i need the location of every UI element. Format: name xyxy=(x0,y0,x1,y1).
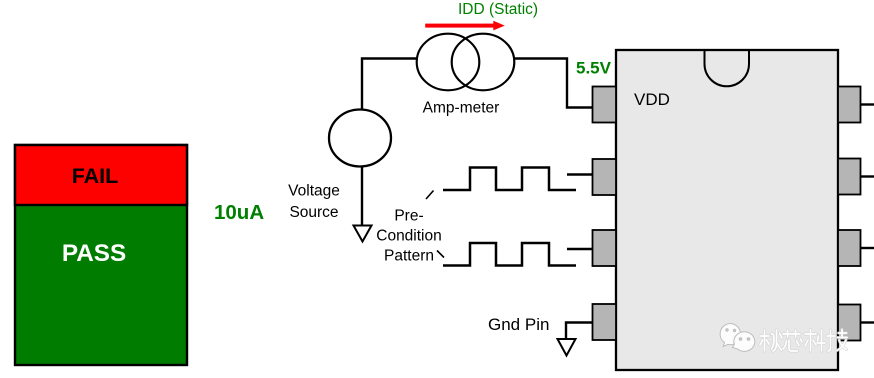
pin 7 (right) xyxy=(838,159,861,195)
svg-text:10uA: 10uA xyxy=(214,201,264,224)
svg-text:IDD (Static): IDD (Static) xyxy=(458,1,538,18)
svg-text:Source: Source xyxy=(289,204,338,221)
svg-text:Gnd Pin: Gnd Pin xyxy=(488,315,549,334)
IC U1 body (DIP-8) xyxy=(616,50,838,370)
svg-text:Voltage: Voltage xyxy=(288,183,340,200)
wire: gnd pin to ground xyxy=(566,323,593,340)
pin 1 (VDD, left) xyxy=(593,87,617,123)
watermark text 桃芯科技 (hand drawn strokes, gray halo + white core) xyxy=(760,330,847,352)
amp-meter A1 (left circle) xyxy=(417,34,480,91)
wire: amp-meter to VDD pin xyxy=(515,59,593,108)
pin 5 (right) xyxy=(838,305,861,341)
leader tick (to bottom pattern) xyxy=(437,251,444,258)
wire: top pattern to pin 2 xyxy=(567,173,593,175)
leader tick (to top pattern) xyxy=(426,191,434,200)
pin 2 (left) xyxy=(593,159,617,195)
svg-text:Pattern: Pattern xyxy=(384,247,434,264)
pin 8 (right) xyxy=(838,87,861,123)
wire: bottom pattern to pin 3 xyxy=(567,248,593,250)
current-flow arrow (red) xyxy=(425,21,505,31)
watermark logo (chat bubbles) xyxy=(720,324,755,352)
pass/fail legend box (red FAIL region) xyxy=(15,145,187,205)
svg-text:PASS: PASS xyxy=(62,240,126,267)
pass/fail legend box (green region) xyxy=(15,145,187,365)
wire stub pin 7 xyxy=(861,175,874,177)
wire stub pin 6 xyxy=(861,247,874,249)
IC notch xyxy=(705,51,750,86)
wire stub pin 5 xyxy=(861,321,874,323)
voltage source V1 xyxy=(329,110,391,167)
pin 4 (Gnd, left) xyxy=(593,304,617,340)
wire: voltage source top to amp-meter xyxy=(362,59,418,110)
pin 3 (left) xyxy=(593,230,617,266)
svg-text:Condition: Condition xyxy=(376,228,442,245)
wire: voltage source bottom to ground xyxy=(361,166,363,226)
waveform: top pre-condition pattern xyxy=(443,168,576,191)
svg-text:Pre-: Pre- xyxy=(394,208,423,225)
ground (voltage source) xyxy=(354,226,372,242)
pin 6 (right) xyxy=(838,230,861,266)
svg-text:Amp-meter: Amp-meter xyxy=(423,100,500,117)
svg-text:FAIL: FAIL xyxy=(72,164,119,188)
waveform: bottom pre-condition pattern xyxy=(443,243,576,266)
amp-meter A1 (right circle) xyxy=(452,34,515,91)
wire stub pin 8 xyxy=(861,103,874,105)
ground (gnd pin) xyxy=(558,339,576,356)
svg-text:VDD: VDD xyxy=(634,90,670,109)
svg-text:5.5V: 5.5V xyxy=(576,59,612,78)
